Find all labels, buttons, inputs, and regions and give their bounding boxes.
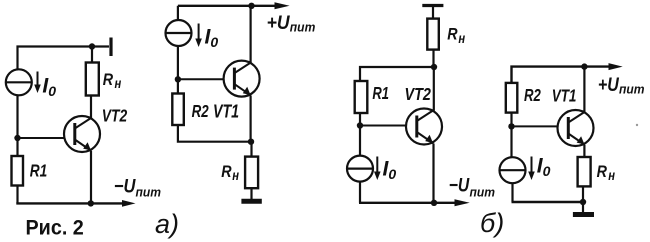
svg-text:−U: −U — [114, 175, 136, 197]
node base junction c2 — [175, 76, 181, 82]
arrow I0 c1 — [34, 72, 41, 94]
resistor R2 c2 — [172, 94, 184, 126]
resistor Rн c4 — [578, 157, 591, 186]
transistor VT1 c2 — [224, 61, 260, 97]
node base junction c3 — [357, 122, 363, 128]
transistor VT2 c3 — [406, 109, 442, 145]
wire top rail c1 — [18, 47, 110, 70]
wire top rail with arrow c4 — [512, 63, 623, 83]
wire collector c3 — [433, 67, 435, 111]
label +Uпит c2 — [267, 11, 316, 34]
svg-text:б): б) — [480, 208, 504, 238]
svg-text:R: R — [221, 163, 232, 181]
svg-text:−U: −U — [449, 174, 471, 196]
terminal supply bar c3 — [422, 4, 443, 7]
svg-text:VT1: VT1 — [213, 102, 239, 122]
svg-text:+U: +U — [598, 74, 620, 96]
wire to Rн c2 — [250, 142, 252, 157]
wire left c1 — [16, 95, 18, 156]
wire collector c2 — [250, 6, 252, 63]
node ground junction c4 — [580, 199, 586, 205]
transistor VT2 c1 — [64, 116, 100, 152]
wire base c1 — [18, 137, 65, 139]
label Rн c3 — [447, 25, 465, 46]
wire emitter c4 — [583, 145, 585, 157]
wire base c3 — [360, 125, 407, 127]
wire source to rail c4 — [511, 183, 513, 202]
svg-text:пит: пит — [619, 82, 645, 96]
node top junction c4 — [581, 63, 587, 69]
ground c4 — [573, 212, 594, 217]
label Rн c2 — [221, 163, 239, 183]
wire ground stub c4 — [582, 202, 584, 212]
wire to ground c2 — [250, 188, 252, 199]
node base junction c1 — [14, 135, 20, 141]
svg-text:R: R — [103, 71, 114, 89]
svg-text:н: н — [458, 31, 465, 46]
resistor R1 — [12, 156, 24, 186]
svg-text:пит: пит — [470, 185, 496, 199]
terminal supply bar c1 — [109, 38, 112, 57]
label Rн c4 — [597, 163, 616, 183]
stray mark — [636, 124, 638, 126]
node top junction c2 — [248, 3, 254, 9]
label -Uпит c1 — [114, 175, 161, 199]
wire -U rail with arrow c3 — [359, 199, 470, 206]
node emitter junction c3 — [431, 200, 437, 206]
wire left c4 — [510, 113, 512, 157]
resistor R1 c3 — [355, 81, 368, 113]
wire base c4 — [512, 125, 558, 127]
wire Rн top c1 — [91, 47, 93, 63]
svg-text:+U: +U — [267, 11, 290, 33]
wire terminal to Rн c3 — [432, 6, 434, 19]
wire source top c2 — [177, 6, 179, 20]
svg-text:R1: R1 — [372, 84, 389, 104]
resistor Rн c2 — [245, 157, 258, 189]
node emitter junction c1 — [88, 200, 94, 206]
svg-text:н: н — [608, 168, 615, 183]
wire collector c1 — [90, 96, 92, 120]
wire bottom rail c4 — [512, 201, 584, 203]
current source I0 c4 — [500, 157, 526, 183]
arrow I0 c2 — [195, 24, 202, 48]
current source I0 c3 — [347, 156, 373, 182]
wire top rail c3 — [360, 67, 434, 81]
label -Uпит c3 — [449, 174, 495, 199]
resistor Rн c1 — [86, 63, 99, 96]
current source I0 c1 — [6, 69, 32, 95]
svg-text:R: R — [447, 25, 458, 43]
svg-text:R1: R1 — [30, 162, 48, 181]
wire top rail with arrow c2 — [178, 2, 290, 9]
svg-text:н: н — [115, 76, 122, 91]
svg-text:R: R — [597, 163, 608, 181]
wire -U rail with arrow c1 — [16, 200, 135, 207]
node emitter junction c2 — [248, 139, 254, 145]
wire left bottom c1 — [16, 186, 18, 204]
svg-text:VT2: VT2 — [102, 106, 127, 126]
svg-text:а): а) — [155, 209, 179, 239]
svg-text:пит: пит — [136, 185, 162, 199]
svg-text:VT2: VT2 — [405, 85, 431, 105]
wire emitter c3 — [432, 144, 434, 203]
svg-text:VT1: VT1 — [552, 87, 577, 106]
wire left bottom c2 — [178, 125, 251, 142]
arrow I0 c4 — [528, 157, 535, 181]
svg-text:н: н — [232, 168, 239, 183]
svg-text:R2: R2 — [192, 102, 209, 121]
node top junction c3 — [431, 64, 437, 70]
wire emitter c2 — [250, 96, 252, 142]
svg-text:пит: пит — [290, 20, 316, 34]
wire Rн to rail c4 — [582, 186, 584, 202]
svg-text:Рис. 2: Рис. 2 — [26, 216, 84, 240]
wire source to rail c3 — [359, 181, 361, 202]
node base junction c4 — [508, 123, 514, 129]
node top junction c1 — [89, 43, 95, 49]
ground c2 — [241, 199, 261, 204]
resistor R2 c4 — [506, 83, 518, 113]
current source I0 c2 — [166, 20, 192, 46]
wire emitter c1 — [90, 151, 92, 203]
arrow I0 c3 — [374, 157, 381, 181]
transistor VT1 c4 — [558, 110, 594, 146]
wire base c2 — [178, 78, 224, 80]
wire Rн bottom c3 — [432, 50, 434, 67]
label +Uпит c4 — [598, 74, 645, 97]
wire left c3 — [359, 113, 361, 156]
svg-text:R2: R2 — [524, 86, 541, 105]
resistor Rн c3 — [427, 19, 439, 50]
wire collector c4 — [583, 67, 585, 112]
wire left c2 — [177, 46, 179, 94]
label Rн c1 — [103, 71, 122, 91]
